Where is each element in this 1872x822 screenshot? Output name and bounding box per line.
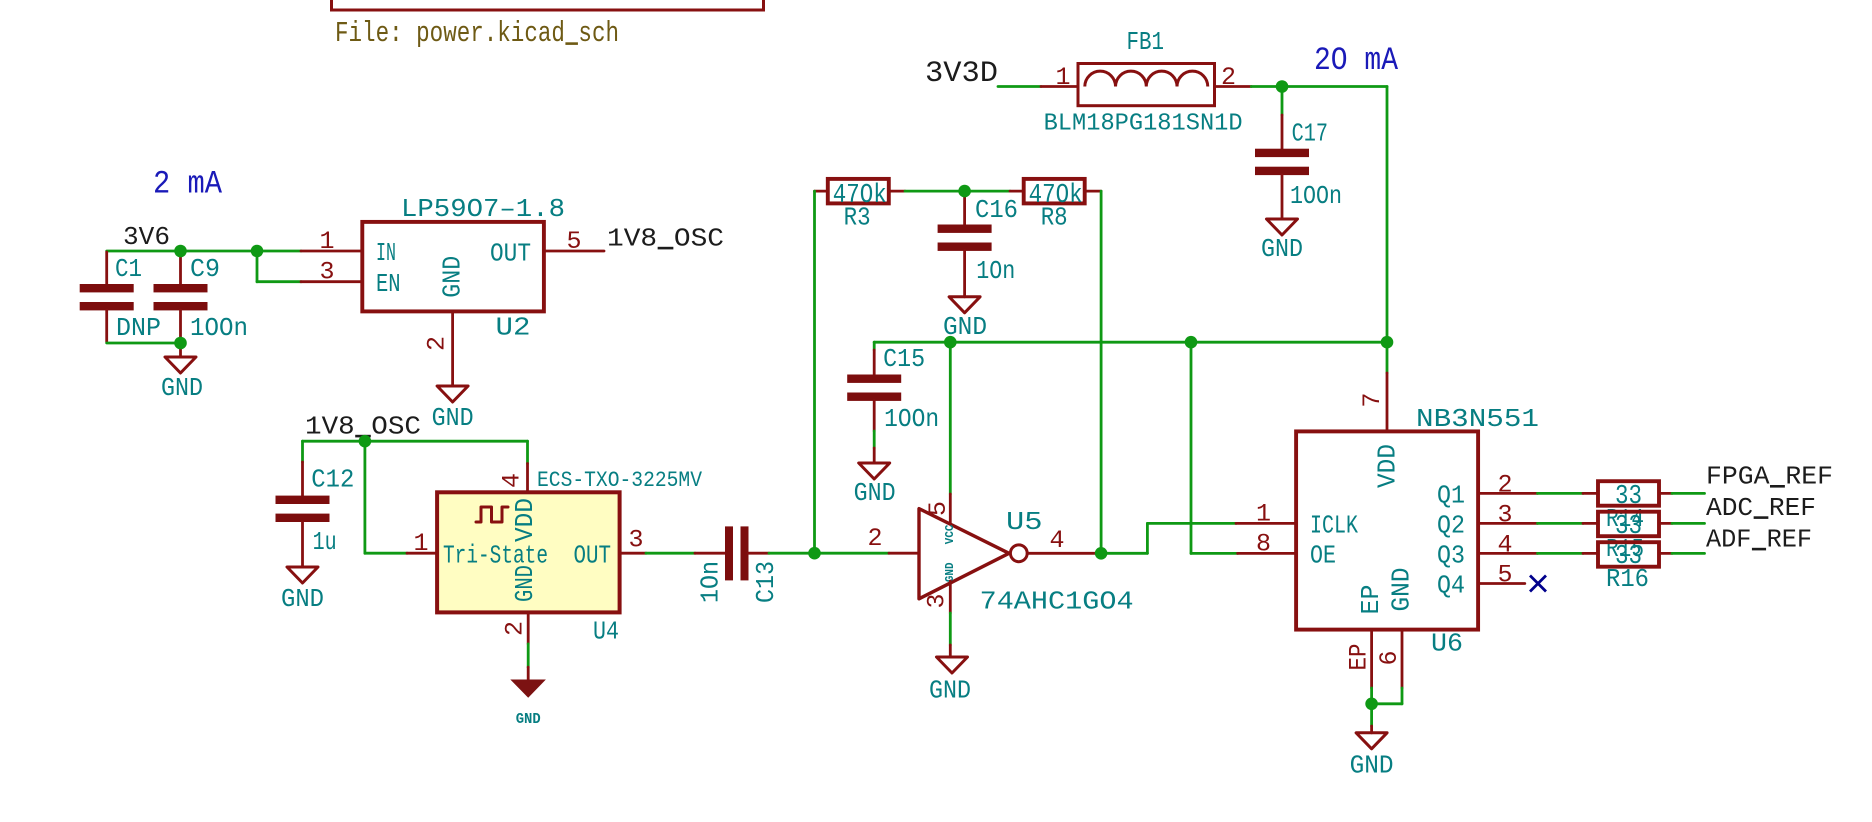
pin 3 stub of U2 (EN): [301, 280, 362, 283]
svg-text:OUT: OUT: [490, 239, 531, 269]
svg-text:R3: R3: [844, 203, 871, 233]
capacitor C1: [105, 252, 108, 284]
wire input to U5 pin 2: [815, 552, 890, 555]
wire R3-R8: [905, 190, 1010, 193]
svg-text:GND: GND: [854, 478, 896, 508]
ferrite bead FB1 body: [1078, 64, 1215, 106]
wire rail down to U5 VCC pin 5: [949, 342, 952, 494]
wire 3V6 horizontal: [107, 250, 301, 253]
svg-text:1OOn: 1OOn: [190, 313, 248, 343]
ground below C15: [859, 463, 890, 479]
svg-text:GND: GND: [281, 584, 324, 614]
svg-text:GND: GND: [1261, 234, 1303, 264]
junction (364.9,441.2): [359, 435, 372, 448]
oscillator U4 ECS-TXO-3225MV body: [437, 492, 619, 612]
svg-text:Q3: Q3: [1437, 541, 1465, 571]
junction (180.5,251): [174, 245, 187, 258]
pin 2 stub of U4 bottom: [527, 612, 530, 644]
svg-text:File: power.kicad sch: File: power.kicad sch: [335, 17, 619, 50]
svg-text:1OOn: 1OOn: [884, 404, 939, 434]
svg-text:C1: C1: [115, 254, 142, 284]
svg-text:7: 7: [1358, 392, 1387, 407]
svg-text:2: 2: [1221, 63, 1236, 92]
junction (814.5,553.2): [808, 547, 821, 560]
svg-text:1OOn: 1OOn: [1290, 181, 1342, 211]
wire rail down to OE: [1190, 342, 1193, 553]
svg-text:GND: GND: [438, 256, 468, 298]
junction (1371.6,703.8): [1365, 698, 1378, 711]
pin 6 stub GND of U6: [1401, 630, 1404, 688]
junction (964.6,191.1): [958, 185, 971, 198]
svg-text:GND: GND: [929, 676, 971, 706]
svg-text:R16: R16: [1606, 564, 1649, 594]
wire U5 output to ICLK (with step): [1101, 552, 1147, 555]
svg-text:Q4: Q4: [1437, 571, 1465, 601]
svg-text:ECS-TXO-3225MV: ECS-TXO-3225MV: [537, 468, 703, 493]
junction (1387,342.2): [1381, 336, 1394, 349]
svg-text:8: 8: [1256, 530, 1271, 559]
svg-text:1: 1: [319, 227, 334, 256]
svg-text:1: 1: [1055, 63, 1070, 92]
ground symbol below C9: [179, 343, 182, 357]
pin 2 stub FB1: [1215, 85, 1252, 88]
pin 4 stub of U4: [526, 464, 529, 493]
capacitor C15: [873, 342, 876, 350]
ground below U5: [937, 657, 968, 673]
svg-text:2: 2: [867, 524, 882, 553]
svg-text:4: 4: [1049, 526, 1064, 555]
capacitor C16: [963, 191, 966, 224]
waveform icon inside U4: [476, 507, 508, 522]
svg-text:5: 5: [924, 501, 953, 516]
svg-text:U4: U4: [593, 617, 619, 647]
ground below C17: [1267, 219, 1298, 235]
svg-text:C9: C9: [190, 254, 220, 284]
svg-text:2O mA: 2O mA: [1314, 42, 1399, 79]
wire to oscillator pin 1: [363, 441, 366, 553]
wire rail to U6 VDD pin 7: [1386, 342, 1389, 373]
svg-text:3: 3: [923, 593, 952, 608]
svg-text:EP: EP: [1345, 644, 1374, 671]
junction (1282,86.5): [1276, 80, 1289, 93]
pin 1 stub ICLK: [1236, 522, 1296, 525]
junction (180.5,343): [174, 337, 187, 350]
wire 3V3D to FB1: [998, 85, 1041, 88]
capacitor C13 (series): [695, 552, 725, 555]
wire R8 right down to U5 output: [1100, 191, 1103, 553]
pin 5 stub OUT: [544, 250, 604, 253]
svg-text:GND: GND: [1350, 751, 1394, 781]
svg-text:Q2: Q2: [1437, 510, 1465, 540]
resistor R3 470k: [815, 190, 828, 193]
resistor R15 33: [1583, 522, 1598, 525]
pin 5 stub VCC of U5: [949, 494, 952, 523]
svg-text:IN: IN: [376, 238, 396, 268]
wire OUT to C13: [646, 552, 695, 555]
svg-text:U2: U2: [496, 313, 531, 343]
svg-text:C15: C15: [883, 344, 925, 374]
svg-text:5: 5: [1497, 561, 1512, 590]
svg-text:ICLK: ICLK: [1310, 510, 1358, 540]
svg-text:6: 6: [1375, 650, 1404, 665]
ground below U6: [1370, 704, 1373, 726]
pin 4 stub Q3: [1478, 552, 1537, 555]
svg-text:1: 1: [413, 529, 428, 558]
svg-text:3: 3: [1497, 500, 1512, 529]
wire 1V8_OSC horizontal: [303, 440, 528, 443]
pin 5 stub Q4: [1478, 582, 1525, 585]
wire EN branch: [256, 251, 259, 282]
junction (950.3,342.2): [944, 336, 957, 349]
pin 4 output stub of U5: [1027, 552, 1101, 555]
svg-text:3V3D: 3V3D: [925, 57, 998, 91]
svg-text:OE: OE: [1310, 541, 1336, 571]
svg-text:FB1: FB1: [1127, 27, 1165, 57]
svg-text:VCC: VCC: [943, 525, 957, 545]
svg-text:U6: U6: [1431, 629, 1463, 659]
svg-text:BLM18PG181SN1D: BLM18PG181SN1D: [1044, 110, 1243, 137]
wire FB output down to rail: [1386, 87, 1389, 343]
svg-text:3: 3: [319, 258, 334, 287]
svg-text:4: 4: [498, 473, 527, 488]
svg-text:3: 3: [628, 526, 643, 555]
capacitor C9: [179, 252, 182, 284]
svg-text:Q1: Q1: [1437, 480, 1465, 510]
svg-text:GND: GND: [943, 563, 957, 583]
pin 3 stub GND of U5: [949, 581, 952, 613]
svg-text:LP59O7–1.8: LP59O7–1.8: [401, 194, 565, 224]
pin 1 stub of U2 (IN): [301, 250, 362, 253]
power ground filled triangle below U4: [512, 680, 545, 697]
svg-text:3V6: 3V6: [123, 222, 170, 252]
inverter output bubble: [1010, 545, 1027, 562]
capacitor C12: [301, 441, 304, 462]
pin 1 stub FB1: [1041, 85, 1078, 88]
svg-text:GND: GND: [510, 565, 540, 602]
svg-text:GND: GND: [161, 373, 203, 403]
svg-text:1: 1: [1256, 500, 1271, 529]
wire to oscillator pin 4 VDD: [526, 441, 529, 463]
pin 3 stub of U4 OUT: [620, 552, 646, 555]
ground symbol below C12: [287, 567, 318, 583]
svg-text:U5: U5: [1006, 507, 1043, 537]
ground below C16: [949, 297, 980, 313]
svg-text:C16: C16: [975, 195, 1018, 225]
wire R3 left down to U5 input: [813, 191, 816, 553]
pin 2 stub Q1: [1478, 492, 1537, 495]
svg-text:2: 2: [1497, 470, 1512, 499]
svg-text:C13: C13: [751, 561, 781, 603]
svg-text:1u: 1u: [313, 527, 337, 557]
svg-text:DNP: DNP: [116, 313, 161, 343]
svg-text:4: 4: [1497, 530, 1512, 559]
resistor R8 470k: [1010, 190, 1024, 193]
svg-text:OUT: OUT: [574, 541, 612, 571]
junction (257,251): [251, 245, 264, 258]
resistor R16 33: [1583, 552, 1598, 555]
svg-text:R8: R8: [1041, 203, 1068, 233]
wire VDD rail horizontal: [874, 341, 1387, 344]
svg-text:GND: GND: [1387, 568, 1417, 612]
svg-text:FPGA REF: FPGA REF: [1706, 462, 1833, 492]
svg-text:EP: EP: [1356, 585, 1386, 615]
svg-text:74AHC1GO4: 74AHC1GO4: [980, 587, 1134, 617]
svg-text:2: 2: [501, 621, 530, 636]
pin 1 stub of U4: [407, 552, 437, 555]
svg-text:VDD: VDD: [510, 498, 540, 542]
pin 8 stub OE: [1238, 552, 1297, 555]
svg-text:1On: 1On: [696, 561, 726, 603]
svg-text:C12: C12: [311, 465, 354, 495]
svg-text:1On: 1On: [976, 256, 1015, 286]
svg-text:GND: GND: [432, 403, 474, 433]
junction (1191,342.2): [1185, 336, 1198, 349]
no-connect X on Q4: [1530, 576, 1546, 592]
pin EP stub of U6: [1370, 630, 1373, 688]
pin 3 stub Q2: [1478, 522, 1537, 525]
svg-text:GND: GND: [516, 711, 541, 728]
pin 2 stub of U2: [451, 311, 454, 386]
svg-text:2: 2: [423, 336, 452, 351]
capacitor C17: [1281, 87, 1284, 116]
svg-text:EN: EN: [376, 269, 401, 299]
svg-text:NB3N551: NB3N551: [1416, 404, 1539, 434]
wire FB1 to corner: [1251, 85, 1387, 88]
svg-text:VDD: VDD: [1373, 444, 1403, 488]
svg-text:C17: C17: [1292, 118, 1328, 148]
inverter U5 74AHC1G04 triangle: [919, 509, 1009, 599]
sheet outline (partial, top of page): [332, 0, 764, 10]
svg-text:2 mA: 2 mA: [153, 166, 223, 203]
clock buffer U6 NB3N551 body: [1296, 431, 1478, 629]
junction (1101.1,553.3): [1095, 547, 1108, 560]
resistor R14 33: [1583, 492, 1598, 495]
ground symbol below U2: [437, 386, 468, 402]
regulator U2 LP5907-1.8 body: [362, 222, 544, 312]
